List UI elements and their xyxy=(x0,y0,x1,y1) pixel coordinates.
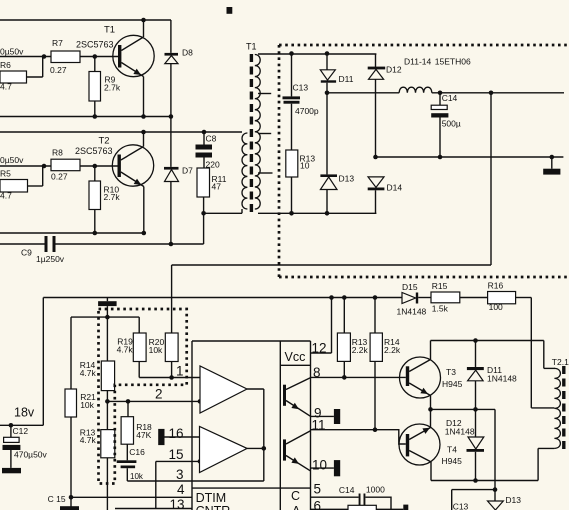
svg-text:8: 8 xyxy=(313,365,321,380)
svg-text:10k: 10k xyxy=(149,345,163,355)
svg-text:H945: H945 xyxy=(442,379,463,389)
svg-text:4.7k: 4.7k xyxy=(80,368,97,378)
svg-text:47K: 47K xyxy=(136,430,151,440)
svg-text:H945: H945 xyxy=(442,456,463,466)
svg-text:0.27: 0.27 xyxy=(51,172,68,182)
svg-text:10: 10 xyxy=(312,458,327,473)
svg-text:DTIM: DTIM xyxy=(196,491,227,505)
svg-text:D13: D13 xyxy=(339,174,355,184)
svg-text:C: C xyxy=(291,489,300,503)
svg-text:100: 100 xyxy=(489,302,503,312)
svg-text:R5: R5 xyxy=(0,169,11,179)
svg-text:1000: 1000 xyxy=(366,484,385,494)
svg-text:16: 16 xyxy=(168,426,183,441)
svg-text:470µ50v: 470µ50v xyxy=(14,450,48,460)
svg-text:2SC5763: 2SC5763 xyxy=(75,146,113,156)
svg-text:6: 6 xyxy=(314,499,322,510)
svg-text:1N4148: 1N4148 xyxy=(445,427,475,437)
svg-text:R15: R15 xyxy=(432,281,448,291)
svg-text:Vcc: Vcc xyxy=(285,350,306,364)
svg-text:C9: C9 xyxy=(21,248,32,258)
svg-text:13: 13 xyxy=(169,497,184,510)
svg-text:CNTR: CNTR xyxy=(196,504,231,510)
svg-text:R6: R6 xyxy=(0,60,11,70)
svg-text:4700p: 4700p xyxy=(295,106,319,116)
svg-text:C12: C12 xyxy=(13,426,29,436)
svg-text:D11-14: D11-14 xyxy=(404,57,432,67)
svg-text:1N4148: 1N4148 xyxy=(397,307,427,317)
svg-text:C16: C16 xyxy=(129,447,145,457)
svg-text:1µ250v: 1µ250v xyxy=(36,254,65,264)
svg-text:D12: D12 xyxy=(386,65,402,75)
svg-text:12: 12 xyxy=(312,341,327,356)
svg-text:D11: D11 xyxy=(339,74,354,84)
svg-text:D15: D15 xyxy=(402,282,418,292)
svg-text:T3: T3 xyxy=(446,367,456,377)
svg-text:T2.1: T2.1 xyxy=(552,357,569,367)
svg-text:10: 10 xyxy=(300,160,310,170)
svg-text:0µ50v: 0µ50v xyxy=(0,155,24,165)
svg-text:2.7k: 2.7k xyxy=(104,83,121,93)
svg-text:D13: D13 xyxy=(505,495,521,505)
svg-text:1N4148: 1N4148 xyxy=(487,374,517,384)
svg-text:4.7: 4.7 xyxy=(0,82,12,92)
svg-text:R8: R8 xyxy=(52,148,63,158)
svg-text:C13: C13 xyxy=(293,82,309,92)
svg-text:T2: T2 xyxy=(99,136,110,147)
svg-text:1.5k: 1.5k xyxy=(432,304,449,314)
svg-text:4.7: 4.7 xyxy=(0,191,12,201)
svg-text:C14: C14 xyxy=(339,485,355,495)
svg-text:2SC5763: 2SC5763 xyxy=(76,40,114,50)
svg-text:C 15: C 15 xyxy=(48,494,66,504)
svg-text:0µ50v: 0µ50v xyxy=(0,47,24,57)
svg-text:10k: 10k xyxy=(130,472,144,481)
svg-text:D7: D7 xyxy=(182,166,193,176)
svg-text:4: 4 xyxy=(177,482,185,497)
svg-text:10k: 10k xyxy=(80,400,94,410)
svg-text:47: 47 xyxy=(212,182,222,192)
svg-text:500µ: 500µ xyxy=(442,119,461,129)
svg-text:11: 11 xyxy=(312,418,326,433)
svg-text:18v: 18v xyxy=(14,406,35,420)
svg-text:C13: C13 xyxy=(453,502,469,510)
svg-text:2: 2 xyxy=(155,387,163,402)
svg-text:C14: C14 xyxy=(442,93,458,103)
svg-text:220: 220 xyxy=(206,160,220,170)
svg-text:R7: R7 xyxy=(52,38,63,48)
svg-text:2.7k: 2.7k xyxy=(104,192,121,202)
svg-text:A: A xyxy=(292,504,301,510)
svg-text:T1: T1 xyxy=(104,25,115,36)
svg-text:T1: T1 xyxy=(246,42,257,52)
svg-text:15: 15 xyxy=(168,447,183,462)
svg-text:D8: D8 xyxy=(182,48,193,58)
svg-text:3: 3 xyxy=(176,467,184,482)
svg-text:D14: D14 xyxy=(387,182,403,192)
svg-text:4.7k: 4.7k xyxy=(80,435,97,445)
svg-text:1: 1 xyxy=(176,364,184,379)
svg-text:0.27: 0.27 xyxy=(50,65,67,75)
svg-text:C8: C8 xyxy=(206,134,217,144)
svg-text:4.7k: 4.7k xyxy=(117,344,134,354)
svg-text:15ETH06: 15ETH06 xyxy=(435,57,471,67)
svg-text:R16: R16 xyxy=(488,281,504,291)
svg-text:5: 5 xyxy=(314,482,322,497)
svg-text:2.2k: 2.2k xyxy=(352,345,369,355)
svg-text:T4: T4 xyxy=(447,445,457,455)
svg-text:2.2k: 2.2k xyxy=(384,345,401,355)
